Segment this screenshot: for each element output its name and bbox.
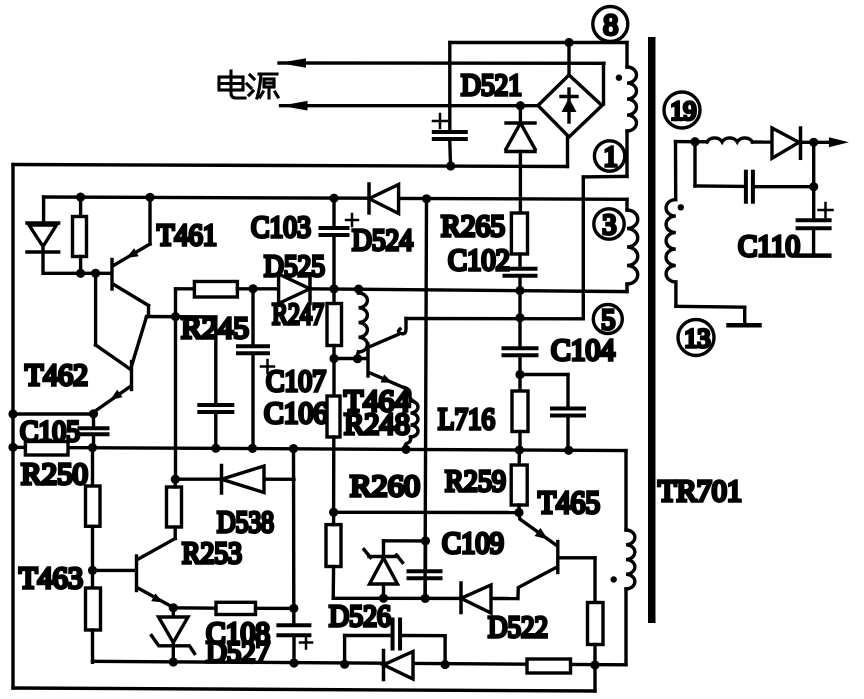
node secondary top left [690,137,699,146]
wire AC line 1 (arrow to mains) [279,61,604,65]
svg-text:L716: L716 [438,401,495,436]
wire main rail y198 left段 [44,197,369,198]
node base rail at x80 [76,269,85,278]
transistor T465 [556,542,559,573]
transformer feedback winding [624,451,627,530]
wire T464 collector rail y318 [406,317,583,321]
diode zener mid [382,541,385,557]
wire top H1 pin8 feed [450,41,627,44]
wire T462 emitter node rail y414 [13,412,94,415]
wire rail y289 D525 segment [253,287,279,290]
node C110 top junction [809,182,818,191]
node rail449 x568 [564,446,573,455]
diode D522 [459,583,463,613]
wire zener bottom to base rail [44,272,111,275]
diode D527 zener [172,608,175,617]
node rail598 zener [379,594,388,603]
wire bridge bottom stub [566,137,569,167]
svg-text:R253: R253 [182,535,242,570]
svg-text:TR701: TR701 [658,473,742,508]
capacitor C109 [424,541,427,568]
resistor upper x92 [91,448,94,486]
svg-text:R265: R265 [441,208,505,243]
wire D526 bracket [343,636,346,665]
capacitor C104 [518,291,521,345]
wire secondary top y142 [676,140,708,144]
label 电源 char 电 [219,71,245,98]
node rail414 border [8,409,17,418]
svg-text:D538: D538 [217,504,274,539]
pin 3 circle [594,209,624,239]
wire x294 vertical [292,449,296,609]
resistor bottom right [527,659,571,673]
diode D524 [367,184,371,213]
capacitor mains filter [448,43,451,130]
capacitor C110 [812,142,815,217]
arrowhead secondary output [829,137,849,147]
node rail663 D527 [169,657,178,666]
diode secondary rectifier [772,128,799,158]
svg-text:R248: R248 [344,406,410,441]
pin 5 circle [593,305,622,334]
node D521 top junction [516,101,525,110]
node rail449 border [8,443,17,452]
node winding8 polarity dot [616,75,622,81]
node rail663 base resistor [590,660,599,669]
node rail598 x425 [421,594,430,603]
capacitor C105 [92,414,95,425]
node C104 bottom junction [515,370,524,379]
svg-text:C106: C106 [264,395,328,430]
resistor R265 [511,213,527,254]
wire secondary left drop [674,142,678,200]
wire secondary bottom [674,282,677,306]
bridge D521 inner diode [561,89,577,122]
label 电源 char 源 [247,74,278,98]
svg-text:5: 5 [601,305,615,336]
svg-text:T465: T465 [538,484,600,520]
svg-text:D522: D522 [488,609,548,644]
wire rail y598 [333,597,518,601]
inductor secondary filter [707,138,752,142]
label + C107 [261,365,274,368]
wire T464 base [334,357,367,360]
svg-text:8: 8 [603,9,618,42]
capacitor C108 [292,608,295,621]
svg-text:D526: D526 [329,598,391,633]
wire main vertical x425 [425,199,427,599]
node rail289 at R247 [329,284,338,293]
resistor R245 [174,289,177,317]
resistor above C108 [216,602,256,614]
wire coil to diode [752,140,772,144]
node rail449 x293 [289,444,298,453]
node x425 y541 [421,536,430,545]
wire main box bottom border [13,688,595,691]
node rail289 at coil [354,285,363,294]
wire pin1 down link [582,177,585,319]
resistor T465 base lower [593,558,596,603]
wire rail y289 mid segment [310,289,627,292]
node rail198 at C103 [329,194,338,203]
inductor beside R247 [359,293,368,352]
svg-text:1: 1 [604,142,618,173]
node rail318 at C104 [515,313,524,322]
svg-text:T463: T463 [19,560,83,595]
pin 8 circle [593,7,628,42]
transistor T463 [135,556,138,591]
svg-text:19: 19 [670,97,696,126]
capacitor C102 [518,254,521,266]
label + C108 [300,641,312,644]
node rail449 x252 [248,444,257,453]
diode D525 [279,274,310,304]
node rail449 x92 [88,443,97,452]
arrowhead AC line 2 [281,101,308,111]
svg-text:13: 13 [684,324,710,353]
transformer secondary winding [666,200,676,282]
wire main rail y449 [13,447,626,450]
label + C110 [819,209,833,212]
svg-text:C103: C103 [251,209,311,244]
diode on bottom rail [382,651,386,680]
svg-text:R250: R250 [21,456,88,491]
capacitor C106 [214,317,217,402]
svg-text:D525: D525 [264,248,325,283]
wire AC1 corner down to bridge right [602,63,605,104]
node T463 base junction [88,566,97,575]
svg-text:C107: C107 [266,363,326,398]
node rail198 at x150 [145,193,154,202]
wire bottom rail y663 [93,661,627,665]
wire main rail y198 right段 [399,197,627,201]
node junction on H1 [564,38,573,47]
resistor L716 damping [518,375,521,392]
capacitor C107 [251,289,254,343]
node rail198 at x80 [76,193,85,202]
wire snubber RC top [693,142,696,186]
svg-text:R259: R259 [445,463,506,498]
capacitor bypass x568 [552,407,584,411]
resistor R259 [518,450,522,465]
wire branch to x568 cap [520,373,568,376]
svg-text:D521: D521 [461,67,522,102]
diode zener left [27,221,59,225]
capacitor snubber RC [744,172,748,202]
wire snubber RC right [756,185,814,188]
node rail663 x344 [340,660,349,669]
svg-text:3: 3 [602,210,616,241]
node rail289 at C102 [515,286,524,295]
resistor R247 [332,289,335,304]
node feedback winding polarity dot [611,576,617,582]
node rail289 at x253 [248,284,257,293]
node rail663 x445 [441,660,450,669]
wire collector rail y316 [147,315,216,319]
transformer winding 8-1 [625,43,628,68]
wire main box top border / bridge minus rail [13,165,568,167]
resistor R260 chain [332,359,335,397]
wire T463 base [93,569,137,572]
capacitor D526 snubber [391,620,395,649]
svg-text:D524: D524 [352,222,413,257]
diode D538 [175,478,221,481]
node rail449 x216 [211,444,220,453]
label + C103 [346,219,358,222]
node rail449 x519 [515,445,524,454]
transistor T461 [110,260,113,290]
inductor T464 emitter winding [405,388,414,402]
capacitor C103 [332,198,335,225]
node rail198 at x427 [422,194,431,203]
node rail663 C108 [289,658,298,667]
wire AC line 2 (arrow to mains) [281,104,538,107]
svg-text:C109: C109 [442,525,504,560]
node secondary polarity dot [678,204,684,210]
node collector rail at x175 [171,312,180,321]
label + mains filter cap [433,120,447,123]
node secondary output [809,138,818,147]
wire base rail y512 [334,511,519,515]
transformer core TR701 [648,37,656,623]
node T464 base rail left [329,354,338,363]
transformer winding 3-5 [625,199,628,210]
pin 19 circle [664,92,700,128]
node rail449 x406 [401,445,410,454]
transistor T462 [130,362,133,390]
pin 1 circle [594,141,624,171]
wire main box left border [11,165,14,689]
resistor R253 [174,317,177,480]
transistor T464 [366,344,369,376]
node T464 base coil junction [353,354,362,363]
resistor bias vertical [79,197,82,216]
wire bridge+ to pin8 stub [567,43,570,76]
ground secondary [743,307,746,323]
resistor R250 [25,442,68,456]
resistor lower x92 [91,570,94,588]
svg-text:R260: R260 [350,468,420,503]
wire emitter resistor link [173,606,216,610]
node x294 at resistor wire [289,604,298,613]
node D527 top junction [169,603,178,612]
pin 13 circle [678,320,714,356]
node filter cap to ground wire [446,161,455,170]
wire T461 base vert down [94,273,97,345]
svg-text:C110: C110 [738,228,800,263]
wire left branch corner [42,197,45,223]
svg-text:T461: T461 [157,217,217,252]
bridge rectifier D521 diamond [538,75,602,137]
arrowhead AC line 1 [279,58,306,68]
svg-text:C102: C102 [448,242,510,277]
svg-text:C104: C104 [551,332,615,367]
node rail414 x93 [89,409,98,418]
node rail512 right [514,508,523,517]
svg-text:T462: T462 [25,357,88,392]
svg-text:R247: R247 [272,296,324,331]
node base rail at x95 [91,269,100,278]
wire zener top link y541 [384,539,426,543]
diode D521-clamp vertical [519,106,522,123]
